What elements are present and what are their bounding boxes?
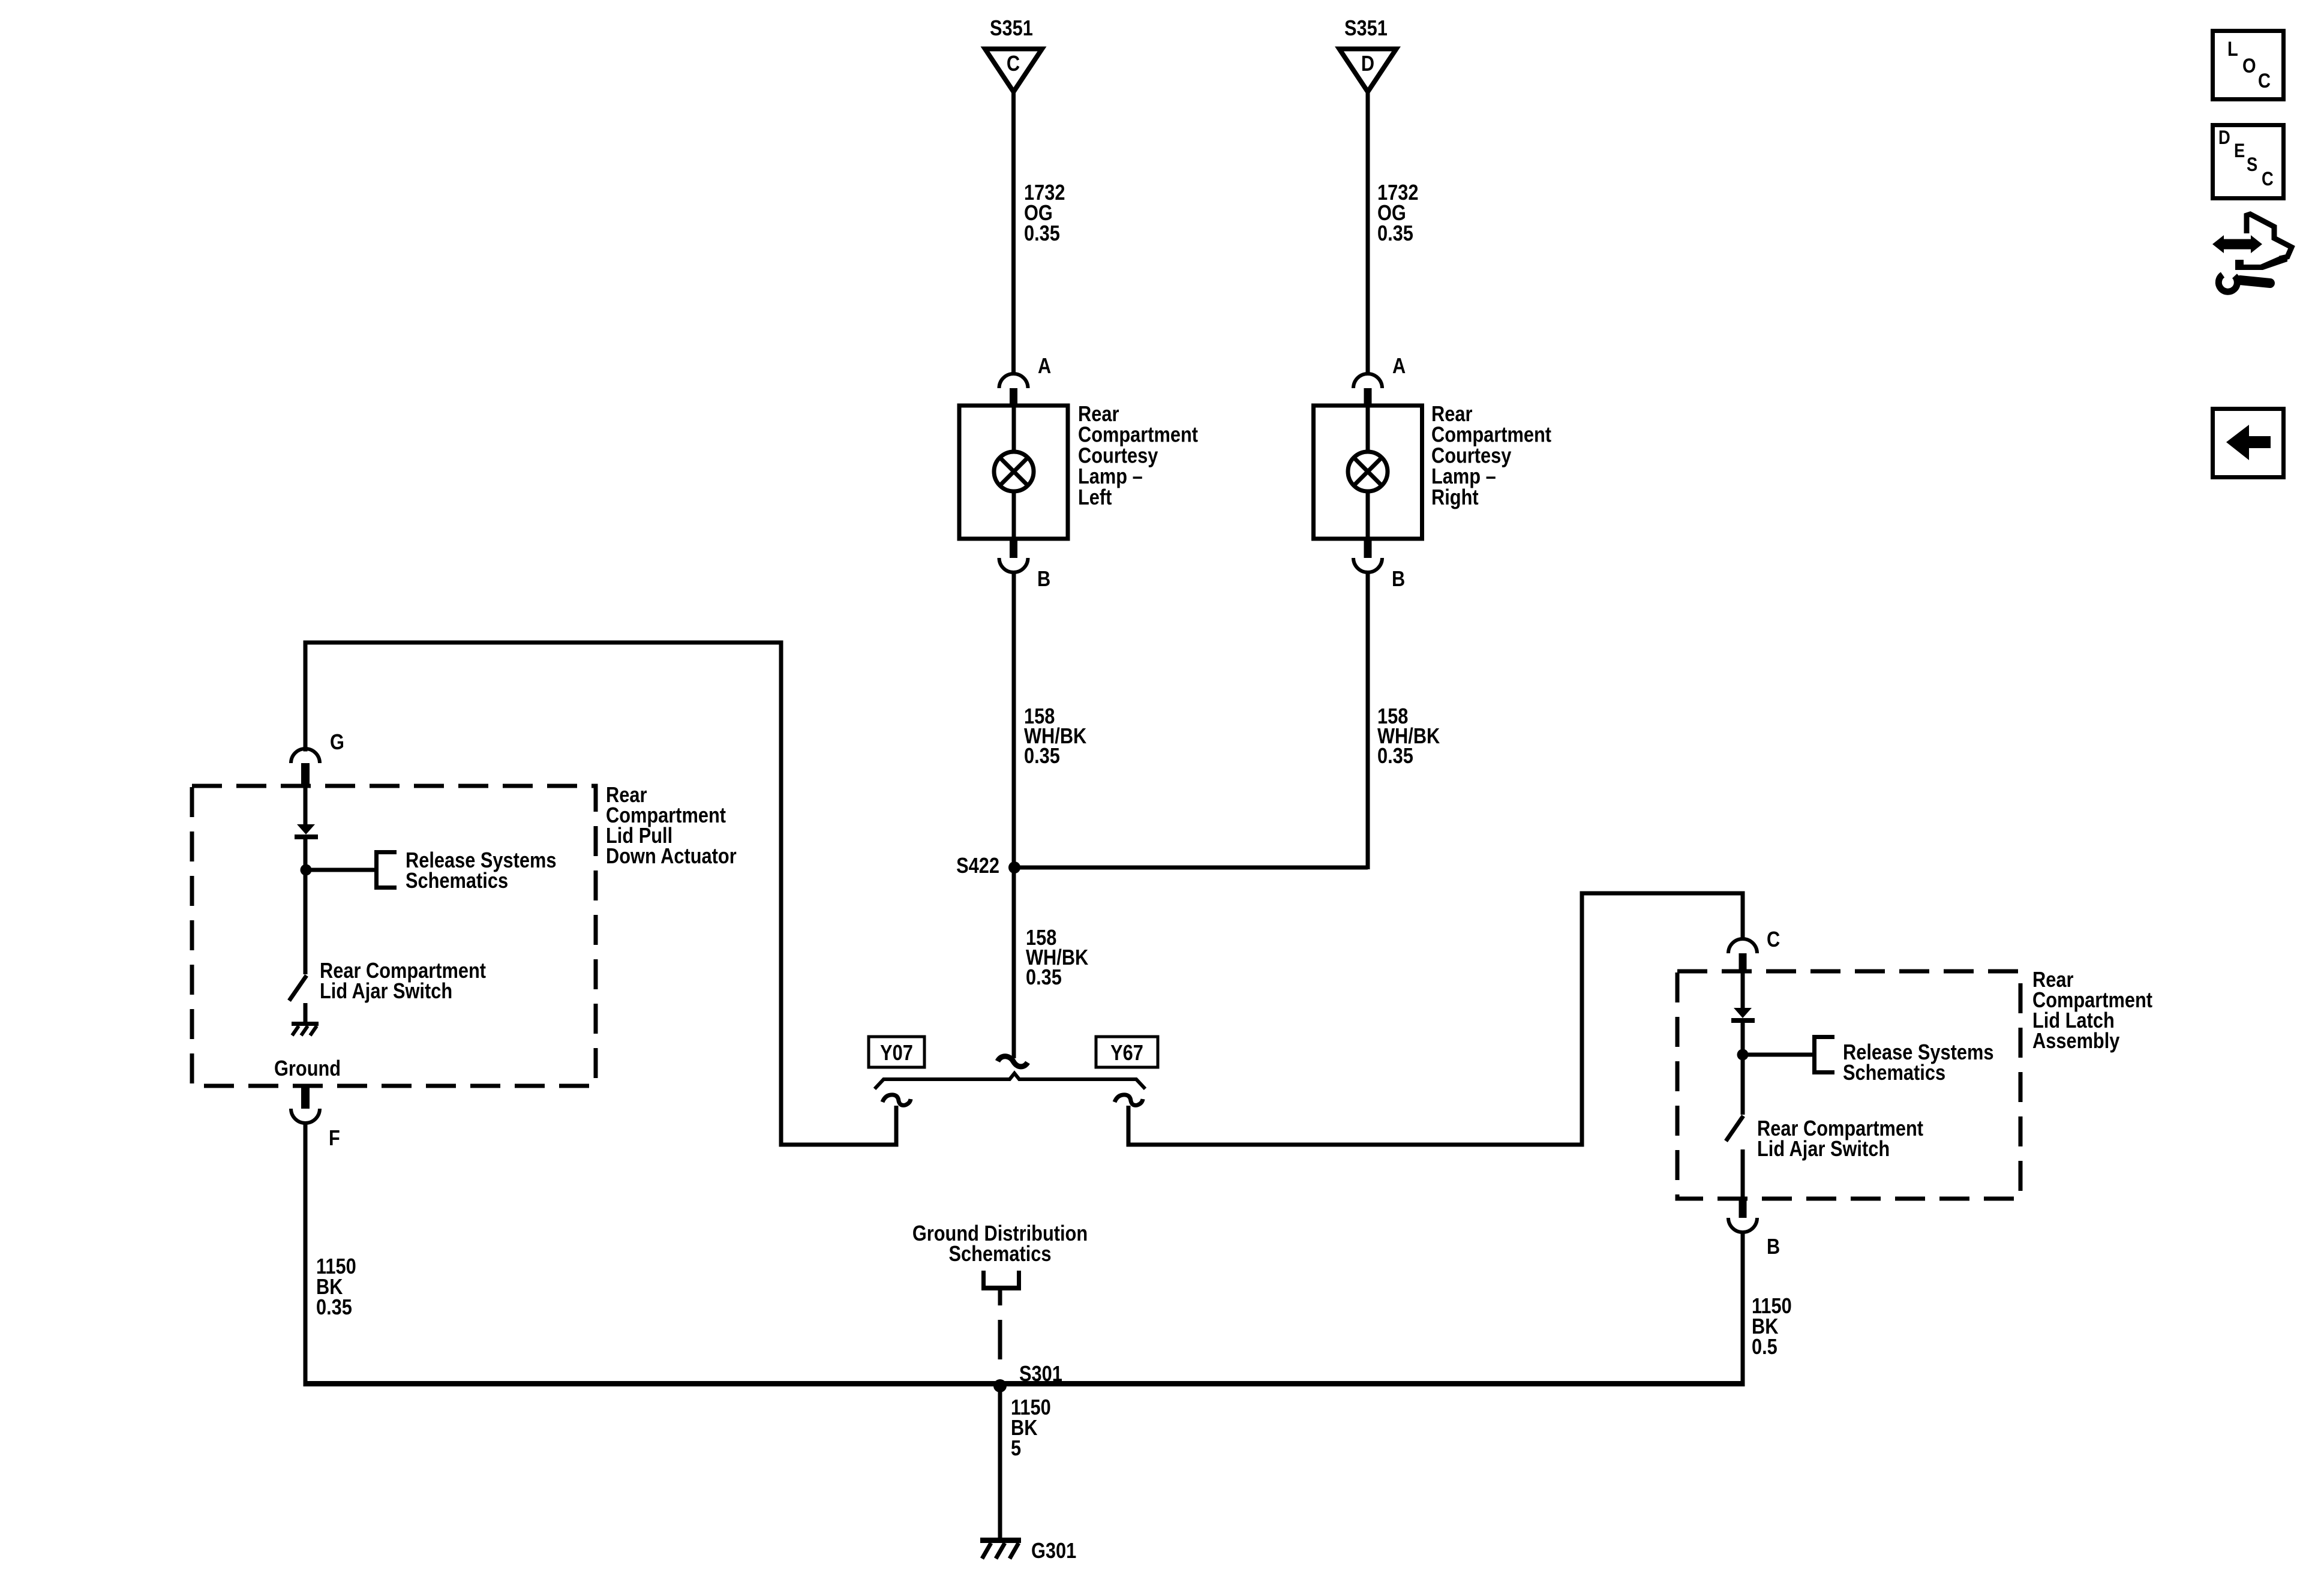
wire down to connector C (latch assembly) bbox=[1741, 891, 1745, 939]
wire to release systems reference (latch) bbox=[1743, 1053, 1813, 1057]
svg-text:G301: G301 bbox=[1031, 1539, 1076, 1563]
lamp housing box (left) bbox=[959, 406, 1068, 539]
internal chassis ground symbol (actuator) bbox=[292, 1022, 319, 1026]
svg-text:S351: S351 bbox=[990, 17, 1033, 41]
value label 1732 OG 0.35 (right) bbox=[1377, 181, 1418, 246]
pin letter F (actuator) bbox=[329, 1127, 340, 1151]
svg-text:D: D bbox=[2218, 127, 2230, 148]
icon LOC box bbox=[2213, 31, 2284, 100]
wire horizontal from Y67 drop to right riser bbox=[1127, 1143, 1584, 1147]
reference label Ground Distribution Schematics bbox=[912, 1222, 1088, 1266]
dashed housing Rear Compartment Lid Latch Assembly bbox=[1677, 971, 2020, 1199]
wire to release systems reference (actuator) bbox=[306, 868, 376, 872]
icon DESC box bbox=[2213, 125, 2284, 199]
svg-text:Y07: Y07 bbox=[880, 1041, 913, 1065]
pin letter C in triangle bbox=[1007, 52, 1020, 76]
value label 1732 OG 0.35 (left) bbox=[1024, 181, 1065, 246]
label S351 (right) bbox=[1344, 17, 1388, 41]
wire inside lamp box top (left) bbox=[1012, 407, 1016, 452]
wire 1150 BK 0.5 (latch down to ground bus) bbox=[1741, 1232, 1745, 1384]
svg-text:C: C bbox=[2258, 69, 2271, 92]
wire 158 WH/BK (right lamp down to S422 run) bbox=[1366, 572, 1370, 869]
wire 1150 BK 5 (S301 to G301) bbox=[998, 1386, 1002, 1540]
switch fixed contact stub (actuator) bbox=[304, 1003, 308, 1022]
svg-text:D: D bbox=[1361, 52, 1374, 76]
pin letter B (left lamp) bbox=[1037, 568, 1050, 592]
label Ground (actuator internal) bbox=[274, 1057, 341, 1081]
wire 1732 OG (left vertical) bbox=[1011, 92, 1016, 373]
svg-text:A: A bbox=[1392, 355, 1406, 379]
svg-text:B: B bbox=[1392, 568, 1405, 592]
dashed housing Rear Compartment Lid Pull Down Actuator bbox=[192, 786, 596, 1086]
connector pin B (left lamp) bbox=[1010, 539, 1017, 558]
off-page reference bracket (latch release systems) bbox=[1812, 1035, 1816, 1074]
svg-text:F: F bbox=[329, 1127, 340, 1151]
component label Rear Compartment Courtesy Lamp - Left bbox=[1078, 403, 1198, 510]
splice junction S422 bbox=[1008, 861, 1020, 873]
label G301 bbox=[1031, 1539, 1076, 1563]
label S301 bbox=[1019, 1362, 1062, 1386]
svg-text:C: C bbox=[1767, 928, 1780, 952]
pin letter C (latch assembly) bbox=[1767, 928, 1780, 952]
svg-text:L: L bbox=[2227, 37, 2238, 61]
label S422 bbox=[956, 854, 999, 878]
wire diode to junction (actuator) bbox=[304, 839, 308, 867]
wire horizontal top right to latch assembly bbox=[1580, 891, 1745, 896]
icon LOC letters bbox=[2227, 37, 2238, 61]
wire right riser up bbox=[1580, 891, 1584, 1147]
svg-text:O: O bbox=[2242, 54, 2256, 77]
diode (actuator) bbox=[297, 824, 315, 834]
wire junction to switch (latch) bbox=[1741, 1058, 1745, 1115]
icon vehicle diagnostics (double arrow) bbox=[2212, 235, 2262, 253]
value label 1150 BK 0.5 bbox=[1752, 1295, 1792, 1359]
off-page ground distribution bracket bbox=[981, 1271, 986, 1290]
component label Rear Compartment Lid Ajar Switch (actuator) bbox=[320, 959, 486, 1004]
label Y67 bbox=[1110, 1041, 1143, 1065]
component label Rear Compartment Lid Ajar Switch (latch) bbox=[1757, 1117, 1923, 1161]
ground bus wire 1150 BK bbox=[304, 1381, 1745, 1386]
icon DESC letters bbox=[2218, 127, 2230, 148]
svg-text:G: G bbox=[330, 731, 344, 755]
icon back-arrow box bbox=[2213, 409, 2284, 478]
label Y07 bbox=[880, 1041, 913, 1065]
wire inside lamp box top (right) bbox=[1366, 407, 1370, 452]
pin letter D in triangle bbox=[1361, 52, 1374, 76]
value label 158 WH/BK 0.35 (left) bbox=[1024, 705, 1086, 769]
wire 158 WH/BK (left lamp down to S422) bbox=[1012, 572, 1016, 1058]
svg-text:Ground: Ground bbox=[274, 1057, 341, 1081]
value label 1150 BK 5 bbox=[1011, 1396, 1051, 1461]
svg-text:S: S bbox=[2247, 154, 2257, 175]
component label Rear Compartment Lid Pull Down Actuator bbox=[606, 784, 737, 869]
splice symbol S351 (triangle D) bbox=[1340, 49, 1397, 92]
connector label box Y07 bbox=[869, 1037, 924, 1067]
component label Rear Compartment Courtesy Lamp - Right bbox=[1431, 403, 1551, 510]
wire 1150 BK 0.35 (actuator down to ground bus) bbox=[304, 1122, 308, 1386]
wire inside latch box to diode bbox=[1741, 973, 1745, 1008]
svg-text:B: B bbox=[1767, 1235, 1780, 1259]
switch blade Rear Compartment Lid Ajar Switch (actuator) bbox=[289, 975, 307, 1001]
wire inside actuator box to diode bbox=[304, 786, 308, 824]
connector pin F (actuator) bbox=[301, 1088, 310, 1109]
pin letter A (right lamp) bbox=[1392, 355, 1406, 379]
svg-text:C: C bbox=[2262, 169, 2274, 190]
reference label Release Systems Schematics (latch) bbox=[1843, 1041, 1993, 1085]
dashed wire to S301 bbox=[998, 1320, 1002, 1359]
svg-text:A: A bbox=[1038, 355, 1051, 379]
wire junction to switch (actuator) bbox=[304, 873, 308, 974]
component label Rear Compartment Lid Latch Assembly bbox=[2032, 968, 2152, 1053]
connector pin B (latch assembly) bbox=[1739, 1199, 1747, 1218]
pin letter A (left lamp) bbox=[1038, 355, 1051, 379]
pin letter G (actuator) bbox=[330, 731, 344, 755]
wire inside lamp box bottom (left) bbox=[1012, 491, 1016, 539]
icon vehicle diagnostics (body outline) bbox=[2247, 214, 2292, 259]
svg-text:C: C bbox=[1007, 52, 1020, 76]
svg-text:S422: S422 bbox=[956, 854, 999, 878]
connector pin A (right lamp) bbox=[1353, 374, 1382, 388]
lamp E (Rear Compartment Courtesy Lamp Right) bulb symbol bbox=[1348, 452, 1388, 491]
pin letter B (latch assembly) bbox=[1767, 1235, 1780, 1259]
svg-text:B: B bbox=[1037, 568, 1050, 592]
value label 158 WH/BK 0.35 (right) bbox=[1377, 705, 1440, 769]
value label 1150 BK 0.35 bbox=[316, 1255, 356, 1320]
connector pin C (latch assembly) bbox=[1728, 939, 1757, 953]
wire inside lamp box bottom (right) bbox=[1366, 491, 1370, 539]
brace grouping Y07/Y67 connectors bbox=[875, 1073, 1145, 1089]
splice symbol S351 (triangle C) bbox=[985, 49, 1042, 92]
wire break symbol at harness pass-through bbox=[998, 1056, 1028, 1067]
diode (latch assembly) bbox=[1734, 1008, 1752, 1018]
switch blade Rear Compartment Lid Ajar Switch (latch) bbox=[1726, 1116, 1743, 1141]
wire below Y07 connector bbox=[894, 1106, 899, 1147]
wire 1732 OG (right vertical) bbox=[1366, 92, 1370, 373]
off-page reference bracket (actuator release systems) bbox=[374, 850, 379, 890]
in-line connector symbol (Y07 side) bbox=[882, 1095, 911, 1105]
wire from S422 to right lamp (horizontal) bbox=[1014, 866, 1368, 870]
splice junction S301 bbox=[993, 1379, 1007, 1392]
lamp E (Rear Compartment Courtesy Lamp Left) bulb symbol bbox=[994, 452, 1034, 491]
pin letter B (right lamp) bbox=[1392, 568, 1405, 592]
svg-text:S351: S351 bbox=[1344, 17, 1388, 41]
wire below Y67 connector bbox=[1127, 1106, 1131, 1147]
value label 158 WH/BK 0.35 (below S422) bbox=[1026, 926, 1088, 990]
switch fixed contact wire (latch) bbox=[1741, 1149, 1745, 1199]
svg-text:Y67: Y67 bbox=[1110, 1041, 1143, 1065]
in-line connector symbol (Y67 side) bbox=[1115, 1095, 1143, 1105]
wire top loop from actuator G up and over to Y07 drop bbox=[304, 641, 308, 752]
junction node (latch) bbox=[1737, 1049, 1749, 1061]
connector pin G (actuator) bbox=[291, 749, 320, 763]
svg-text:S301: S301 bbox=[1019, 1362, 1062, 1386]
svg-text:E: E bbox=[2234, 140, 2245, 161]
connector pin A (left lamp) bbox=[999, 374, 1028, 388]
ground symbol G301 bbox=[980, 1538, 1021, 1543]
icon back-arrow bbox=[2226, 425, 2271, 460]
lamp housing box (right) bbox=[1314, 406, 1422, 539]
wire diode to junction (latch) bbox=[1741, 1023, 1745, 1052]
reference label Release Systems Schematics (actuator) bbox=[406, 849, 556, 893]
connector label box Y67 bbox=[1096, 1037, 1158, 1067]
icon vehicle diagnostics (lower body line) bbox=[2235, 256, 2287, 270]
label S351 (left) bbox=[990, 17, 1033, 41]
connector pin B (right lamp) bbox=[1364, 539, 1372, 558]
icon vehicle diagnostics (wrench) bbox=[2218, 275, 2237, 292]
junction node (actuator) bbox=[301, 864, 312, 876]
